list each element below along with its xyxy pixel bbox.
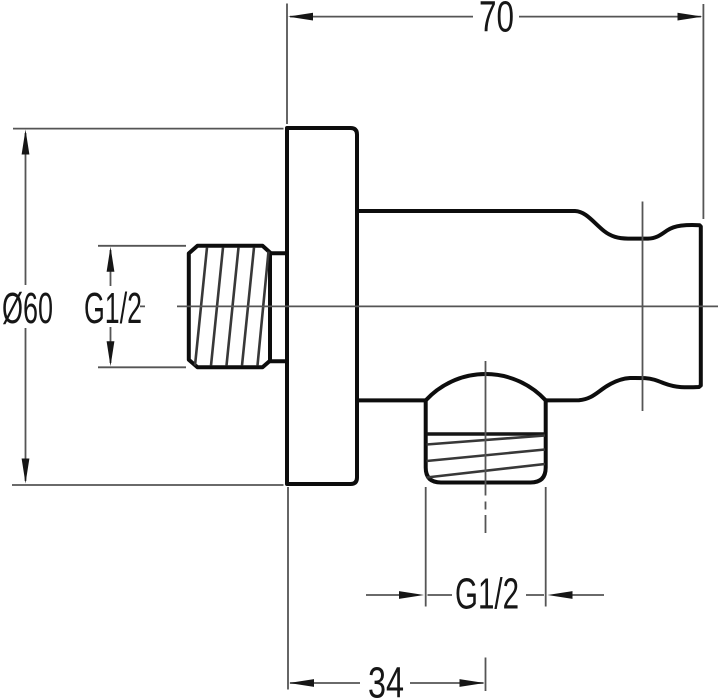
70 extension line right (702, 4, 704, 219)
G1/2 bottom extension lines (426, 487, 546, 607)
70 dimension line (290, 16, 701, 18)
34 arrow left (289, 679, 314, 687)
holder vertical centerline (642, 202, 644, 412)
dia60 arrow down (22, 459, 30, 484)
body outline (top edge, neck waist, right end, bottom edge) (357, 211, 701, 400)
horizontal centerline (140, 305, 718, 307)
G1/2 left arrow down (107, 341, 115, 366)
nipple thread helix lines (195, 248, 269, 366)
dia60 dimension line (25, 133, 27, 481)
wall flange plate (287, 128, 357, 484)
svg-text:34: 34 (368, 659, 404, 700)
svg-text:Ø60: Ø60 (2, 284, 53, 333)
34 arrow right (460, 679, 485, 687)
70 arrow left (288, 13, 313, 21)
34 extension line right (485, 658, 487, 692)
bottom outlet dome shoulder (426, 374, 546, 400)
34 extension line left (287, 487, 289, 690)
body bottom edge left segment (357, 398, 426, 402)
G1/2 bottom dimension line with outside arrows (366, 594, 604, 596)
svg-text:70: 70 (479, 0, 514, 42)
dia60 arrow up (22, 130, 30, 155)
dia60 extension line top (13, 128, 284, 130)
nipple neck to flange (270, 253, 287, 361)
G1/2 left extension lines (98, 246, 186, 367)
G1/2 bottom arrow pointing right (399, 591, 424, 599)
dia60 extension line bottom (12, 484, 284, 486)
left threaded nipple (189, 246, 270, 367)
bottom outlet threaded body (426, 400, 546, 482)
34 dimension line (290, 682, 484, 684)
70 extension line left (286, 4, 288, 125)
70 arrow right (678, 13, 703, 21)
outlet thread helix lines (427, 436, 546, 478)
G1/2 left dimension line (110, 250, 112, 363)
outlet thread boundary line (427, 432, 546, 436)
svg-text:G1/2: G1/2 (84, 284, 142, 333)
svg-text:G1/2: G1/2 (455, 570, 519, 619)
G1/2 left arrow up (107, 247, 115, 272)
outlet vertical centerline (485, 361, 487, 533)
G1/2 bottom arrow pointing left (548, 591, 573, 599)
